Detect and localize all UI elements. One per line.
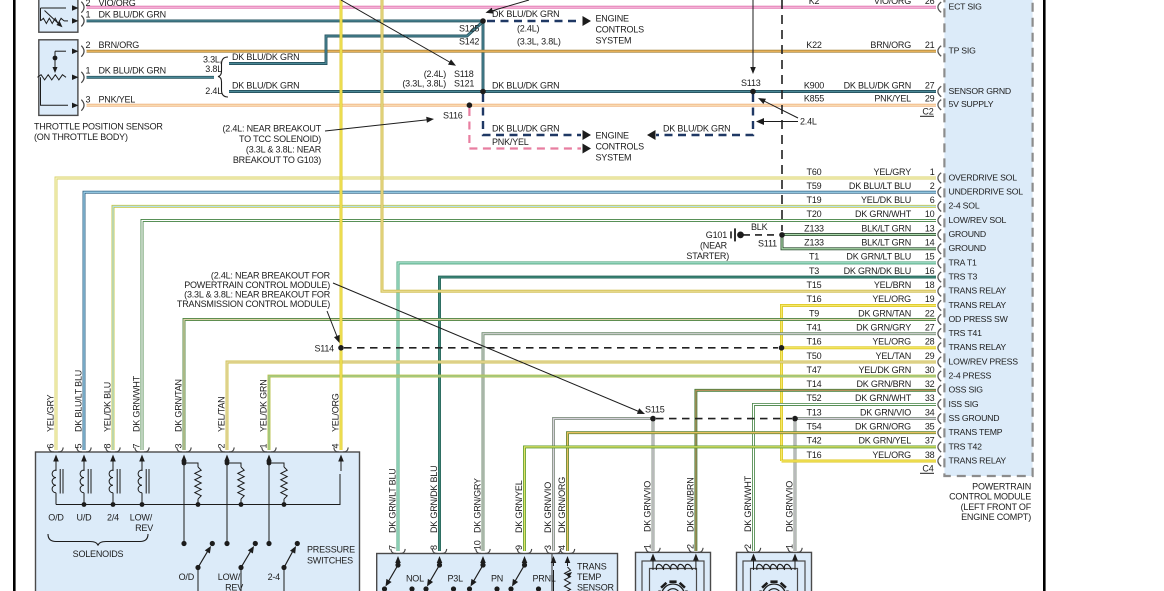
- pressure switch O/D resistor: [182, 461, 202, 505]
- svg-text:SENSOR: SENSOR: [577, 583, 615, 591]
- svg-text:K22: K22: [806, 40, 822, 50]
- svg-text:29: 29: [925, 94, 935, 104]
- svg-text:K855: K855: [804, 94, 824, 104]
- dashed BLK G101 to S111: [743, 234, 778, 236]
- svg-text:S111: S111: [758, 239, 777, 249]
- svg-text:7: 7: [132, 444, 142, 449]
- svg-text:OSS SIG: OSS SIG: [949, 385, 984, 395]
- svg-text:PNK/YEL: PNK/YEL: [874, 94, 911, 104]
- svg-text:BLK: BLK: [751, 222, 768, 232]
- svg-text:(LEFT FRONT OF: (LEFT FRONT OF: [961, 502, 1032, 512]
- splice S115: [650, 416, 656, 422]
- PCM C4 pin 13 GROUND labels: [804, 223, 986, 239]
- svg-text:YEL/DK BLU: YEL/DK BLU: [103, 382, 113, 432]
- svg-text:8: 8: [103, 444, 113, 449]
- svg-text:27: 27: [925, 322, 935, 332]
- range box pin 7 entry: [388, 468, 406, 566]
- svg-text:T52: T52: [807, 393, 822, 403]
- svg-text:S125: S125: [459, 24, 479, 34]
- svg-text:BLK/LT GRN: BLK/LT GRN: [861, 223, 911, 233]
- PCM location caption: [949, 482, 1032, 523]
- svg-text:3: 3: [86, 95, 91, 105]
- svg-text:BRN/ORG: BRN/ORG: [870, 40, 911, 50]
- svg-text:BRN/ORG: BRN/ORG: [99, 40, 140, 50]
- svg-text:BREAKOUT TO G103): BREAKOUT TO G103): [233, 155, 321, 165]
- svg-text:YEL/ORG: YEL/ORG: [331, 393, 341, 432]
- svg-text:T42: T42: [807, 436, 822, 446]
- svg-text:DK GRN/ORG: DK GRN/ORG: [557, 477, 567, 533]
- svg-text:Z133: Z133: [804, 238, 824, 248]
- svg-text:6: 6: [930, 195, 935, 205]
- PCM connector C2/C4 (powertrain control module): [944, 0, 1032, 476]
- svg-text:S113: S113: [741, 78, 761, 88]
- range switch NOL: [382, 562, 424, 591]
- solenoid box pin 4 entry: [331, 393, 349, 471]
- svg-text:(2.4L: NEAR BREAKOUT: (2.4L: NEAR BREAKOUT: [222, 123, 321, 133]
- svg-text:2: 2: [86, 40, 91, 50]
- wire T59 DK BLU/LT BLU pin 2: [84, 192, 936, 450]
- svg-text:LOW/: LOW/: [130, 513, 153, 523]
- wire T42 DK GRN/YEL pin 37: [525, 447, 937, 551]
- svg-text:ENGINE: ENGINE: [596, 14, 630, 24]
- svg-text:PRNL: PRNL: [533, 574, 556, 584]
- PCM C4 pin 2 UNDERDRIVE SOL labels: [807, 181, 1024, 197]
- splice S113: [750, 89, 756, 95]
- svg-text:DK GRN/LT BLU: DK GRN/LT BLU: [846, 252, 911, 262]
- svg-text:T3: T3: [809, 266, 819, 276]
- svg-text:T1: T1: [809, 252, 819, 262]
- svg-text:1: 1: [643, 544, 653, 549]
- PCM C4 pin 38 TRANS RELAY labels: [807, 450, 1007, 466]
- svg-text:DK BLU/DK GRN: DK BLU/DK GRN: [844, 80, 911, 90]
- svg-text:TRS T3: TRS T3: [949, 272, 978, 282]
- transmission range / pressure switch box: [377, 554, 618, 591]
- svg-text:SYSTEM: SYSTEM: [596, 36, 632, 46]
- svg-text:YEL/GRY: YEL/GRY: [874, 167, 912, 177]
- svg-text:SWITCHES: SWITCHES: [307, 556, 353, 566]
- wire T19 YEL/DK BLU pin 6: [113, 206, 936, 450]
- svg-text:VIO/ORG: VIO/ORG: [99, 0, 136, 8]
- note 2.4L near breakout for PCM / TCM: [177, 270, 331, 309]
- svg-text:34: 34: [925, 407, 935, 417]
- connector label C2: [920, 107, 934, 117]
- engine controls system (middle): [596, 131, 645, 163]
- svg-text:CONTROLS: CONTROLS: [596, 142, 645, 152]
- svg-text:T60: T60: [807, 167, 822, 177]
- svg-text:2-4: 2-4: [268, 572, 281, 582]
- svg-text:2.4L: 2.4L: [800, 117, 817, 127]
- solenoid coil LOW/REV: [138, 469, 149, 505]
- PCM C4 pin 16 TRS T3 labels: [809, 266, 977, 282]
- output speed sensor box: [636, 552, 711, 591]
- pressure switch 2-4 resistor: [267, 461, 288, 505]
- svg-text:T19: T19: [807, 195, 822, 205]
- svg-text:S114: S114: [314, 343, 334, 353]
- svg-text:PN: PN: [491, 574, 503, 584]
- svg-text:DK GRN/VIO: DK GRN/VIO: [860, 407, 911, 417]
- svg-text:DK GRN/LT BLU: DK GRN/LT BLU: [388, 468, 398, 533]
- PCM C4 pin 28 TRANS RELAY labels: [807, 337, 1007, 353]
- dashed DK BLU/DK GRN from S125 to engine controls: [487, 16, 591, 26]
- svg-text:22: 22: [925, 308, 935, 318]
- svg-text:1: 1: [86, 10, 91, 20]
- svg-text:TO TCC SOLENOID): TO TCC SOLENOID): [239, 134, 321, 144]
- svg-text:PNK/YEL: PNK/YEL: [492, 137, 529, 147]
- range box pin 8 entry: [429, 466, 447, 566]
- svg-text:T13: T13: [807, 407, 822, 417]
- svg-text:DK GRN/TAN: DK GRN/TAN: [174, 379, 184, 432]
- svg-text:TRS T41: TRS T41: [949, 328, 983, 338]
- svg-text:LOW/REV SOL: LOW/REV SOL: [949, 215, 1007, 225]
- splice S116: [467, 102, 473, 108]
- svg-text:5: 5: [74, 444, 84, 449]
- svg-text:T9: T9: [809, 308, 819, 318]
- svg-text:2: 2: [930, 181, 935, 191]
- svg-text:26: 26: [925, 0, 935, 6]
- svg-text:TRANS RELAY: TRANS RELAY: [949, 286, 1007, 296]
- pressure switch LOW/REV contacts: [224, 463, 258, 591]
- label S125 S142: [459, 24, 561, 47]
- svg-text:CONTROL MODULE: CONTROL MODULE: [949, 492, 1031, 502]
- svg-text:T41: T41: [807, 322, 822, 332]
- svg-text:DK BLU/LT BLU: DK BLU/LT BLU: [849, 181, 911, 191]
- wire ECT pin1 DK BLU/DK GRN: [87, 19, 483, 22]
- dashed DK BLU/DK GRN from S121 to engine controls: [483, 94, 591, 140]
- PCM C2 pin 27 SENSOR GRND labels: [804, 80, 1011, 96]
- range switch P3L: [423, 562, 463, 591]
- 2.4L label near S113 with arrows: [756, 98, 817, 127]
- splice S121/S118: [480, 89, 486, 95]
- wire 2.4L branch DK BLU/DK GRN to pin 27: [229, 90, 936, 93]
- svg-text:2: 2: [217, 444, 227, 449]
- svg-text:GROUND: GROUND: [949, 229, 986, 239]
- svg-text:DK GRN/GRY: DK GRN/GRY: [473, 478, 483, 533]
- svg-text:19: 19: [925, 294, 935, 304]
- pressure switch LOW/REV resistor: [225, 461, 245, 505]
- svg-text:CONTROLS: CONTROLS: [596, 25, 645, 35]
- PCM C2 pin 29 5V SUPPLY labels: [804, 94, 994, 110]
- svg-text:PNK/YEL: PNK/YEL: [99, 95, 136, 105]
- page right border: [1043, 0, 1046, 591]
- PCM C4 pin 18 TRANS RELAY labels: [807, 280, 1007, 296]
- TPS pin connectors: [81, 46, 84, 111]
- svg-text:3: 3: [174, 444, 184, 449]
- wire T9 DK GRN/TAN pin 22: [184, 320, 936, 451]
- svg-text:C4: C4: [922, 464, 933, 474]
- svg-text:S121: S121: [454, 79, 474, 89]
- svg-text:38: 38: [925, 450, 935, 460]
- leader arrow to S118: [341, 0, 456, 66]
- svg-text:GROUND: GROUND: [949, 243, 986, 253]
- wire 3.3L/3.8L branch DK BLU/DK GRN: [229, 23, 482, 64]
- svg-text:G101: G101: [706, 230, 727, 240]
- PCM C4 pin 37 TRS T42 labels: [807, 436, 983, 452]
- svg-text:P3L: P3L: [448, 574, 464, 584]
- label 3.3L 3.8L / 2.4L with brace: [203, 55, 228, 98]
- svg-text:YEL/DK GRN: YEL/DK GRN: [858, 365, 911, 375]
- leader arrow to S116: [325, 117, 434, 131]
- dashed S115 to junction: [656, 418, 792, 420]
- svg-text:YEL/ORG: YEL/ORG: [872, 337, 911, 347]
- dashed S114 to pin 28: [344, 347, 778, 349]
- connector label C4: [920, 464, 934, 474]
- svg-text:REV: REV: [135, 523, 153, 533]
- svg-text:4: 4: [331, 444, 341, 449]
- PCM C2 pin 21 TP SIG labels: [806, 40, 976, 56]
- svg-text:ENGINE: ENGINE: [596, 131, 630, 141]
- svg-text:10: 10: [473, 540, 483, 550]
- svg-text:TRANS RELAY: TRANS RELAY: [949, 342, 1007, 352]
- pressure switch O/D contacts: [181, 463, 215, 591]
- svg-text:S142: S142: [459, 37, 479, 47]
- svg-text:(3.3L & 3.8L: NEAR: (3.3L & 3.8L: NEAR: [246, 144, 322, 154]
- svg-text:13: 13: [925, 223, 935, 233]
- output speed sensor pin 1 entry: [643, 481, 661, 570]
- svg-text:DK GRN/WHT: DK GRN/WHT: [855, 393, 912, 403]
- range box pin 9 entry: [514, 480, 532, 566]
- svg-text:C2: C2: [922, 107, 933, 117]
- svg-text:2: 2: [86, 0, 91, 8]
- svg-text:9: 9: [514, 545, 524, 550]
- svg-text:DK GRN/GRY: DK GRN/GRY: [856, 322, 911, 332]
- svg-text:21: 21: [925, 40, 935, 50]
- svg-text:TRANS: TRANS: [577, 562, 607, 572]
- svg-text:YEL/TAN: YEL/TAN: [217, 397, 227, 432]
- svg-text:DK BLU/DK GRN: DK BLU/DK GRN: [99, 65, 166, 75]
- svg-text:LOW/REV PRESS: LOW/REV PRESS: [949, 356, 1019, 366]
- svg-text:STARTER): STARTER): [686, 251, 729, 261]
- svg-text:T54: T54: [807, 422, 822, 432]
- range switch PRNL: [508, 562, 556, 591]
- svg-text:DK GRN/DK BLU: DK GRN/DK BLU: [429, 466, 439, 533]
- range switch PN: [467, 562, 503, 591]
- wire T41 DK GRN/GRY pin 27: [483, 334, 936, 551]
- solenoid and pressure switch assembly box: [36, 452, 360, 591]
- wire TPS pin2 BRN/ORG to pin 21: [87, 50, 937, 53]
- svg-text:ENGINE COMPT): ENGINE COMPT): [961, 512, 1031, 522]
- PCM C4 pin 15 TRA T1 labels: [809, 252, 977, 268]
- splice S111: [779, 232, 785, 238]
- svg-text:DK GRN/VIO: DK GRN/VIO: [643, 481, 653, 532]
- svg-text:T16: T16: [807, 337, 822, 347]
- solenoid box pin 5 entry: [74, 370, 92, 471]
- PCM C4 pin 10 LOW/REV SOL labels: [807, 209, 1007, 225]
- leader arrow to S125: [486, 0, 530, 14]
- note 2.4L near breakout to TCC solenoid: [222, 123, 321, 165]
- svg-text:15: 15: [925, 252, 935, 262]
- wire T20 DK GRN/WHT pin 10: [142, 221, 936, 451]
- svg-text:T20: T20: [807, 209, 822, 219]
- svg-text:DK BLU/DK GRN: DK BLU/DK GRN: [492, 124, 559, 134]
- label S116: [443, 110, 463, 120]
- svg-text:O/D: O/D: [179, 572, 195, 582]
- svg-text:(3.3L, 3.8L): (3.3L, 3.8L): [517, 37, 561, 47]
- PCM C4 pin 19 TRANS RELAY labels: [807, 294, 1007, 310]
- label S114: [314, 343, 334, 353]
- ECT sensor box: [39, 0, 78, 32]
- svg-text:DK GRN/YEL: DK GRN/YEL: [858, 436, 911, 446]
- svg-text:BLK/LT GRN: BLK/LT GRN: [861, 238, 911, 248]
- svg-text:(NEAR: (NEAR: [700, 240, 728, 250]
- svg-text:TRA T1: TRA T1: [949, 257, 977, 267]
- output speed sensor pin 2 entry: [685, 477, 703, 570]
- svg-text:3.3L,: 3.3L,: [203, 55, 222, 65]
- PCM C4 pin 27 TRS T41 labels: [807, 322, 983, 338]
- svg-text:TRANSMISSION CONTROL MODULE): TRANSMISSION CONTROL MODULE): [177, 299, 330, 309]
- label S113: [741, 78, 761, 88]
- engine controls system (top): [596, 14, 645, 46]
- label DK BLU/DK GRN branch A: [229, 52, 300, 64]
- solenoid box pin 1 entry: [259, 379, 277, 471]
- svg-text:2-4 PRESS: 2-4 PRESS: [949, 371, 992, 381]
- TPS internal potentiometer: [38, 48, 79, 108]
- svg-text:5V SUPPLY: 5V SUPPLY: [949, 99, 994, 109]
- svg-text:T14: T14: [807, 379, 822, 389]
- svg-text:YEL/ORG: YEL/ORG: [872, 450, 911, 460]
- ground G101 (near starter): [686, 228, 743, 260]
- svg-text:S116: S116: [443, 110, 463, 120]
- svg-text:DK GRN/DK BLU: DK GRN/DK BLU: [844, 266, 911, 276]
- svg-text:1: 1: [259, 444, 269, 449]
- svg-text:DK GRN/WHT: DK GRN/WHT: [855, 209, 912, 219]
- splice S125/S142: [480, 18, 486, 24]
- page left border: [13, 0, 16, 591]
- svg-text:27: 27: [925, 80, 935, 90]
- svg-text:2: 2: [743, 544, 753, 549]
- svg-text:8: 8: [429, 545, 439, 550]
- svg-text:1: 1: [86, 65, 91, 75]
- range box pin 3 entry: [543, 482, 561, 566]
- svg-text:SENSOR GRND: SENSOR GRND: [949, 86, 1011, 96]
- input speed sensor pin 1 entry: [785, 481, 803, 570]
- label S118 S121: [402, 69, 474, 89]
- ECT sensor internal thermistor: [41, 5, 79, 27]
- svg-text:REV: REV: [225, 583, 243, 591]
- svg-text:1: 1: [930, 167, 935, 177]
- solenoids brace: [48, 534, 148, 559]
- svg-text:33: 33: [925, 393, 935, 403]
- svg-text:TRANS RELAY: TRANS RELAY: [949, 455, 1007, 465]
- leader arrow to S115: [333, 283, 645, 414]
- wire T15 YEL/BRN pin 18: [382, 0, 936, 291]
- svg-text:DK BLU/DK GRN: DK BLU/DK GRN: [492, 9, 559, 19]
- svg-text:YEL/DK BLU: YEL/DK BLU: [861, 195, 911, 205]
- solenoid labels: [48, 513, 153, 534]
- PCM C4 pin 1 OVERDRIVE SOL labels: [807, 167, 1018, 183]
- solenoid box pin 7 entry: [132, 375, 150, 471]
- svg-text:30: 30: [925, 365, 935, 375]
- svg-text:2/4: 2/4: [107, 513, 119, 523]
- svg-text:4: 4: [557, 545, 567, 550]
- dashed DK BLU/DK GRN from S113 to engine controls: [647, 94, 753, 140]
- svg-text:(2.4L): (2.4L): [517, 24, 540, 34]
- splice S114: [338, 345, 344, 351]
- wire T50 YEL/TAN pin 29: [227, 362, 936, 450]
- svg-text:18: 18: [925, 280, 935, 290]
- wire T1 DK GRN/LT BLU pin 15: [398, 263, 936, 551]
- svg-text:OVERDRIVE SOL: OVERDRIVE SOL: [949, 172, 1018, 182]
- input speed sensor box: [737, 552, 812, 591]
- wire T13 DK GRN/VIO S115 drop: [652, 419, 655, 551]
- label BLK / S111: [751, 222, 777, 248]
- PCM C4 pin 14 GROUND labels: [804, 238, 986, 254]
- splice junction pin28 yellow: [779, 345, 785, 351]
- svg-text:35: 35: [925, 422, 935, 432]
- svg-text:POWERTRAIN: POWERTRAIN: [972, 482, 1031, 492]
- trans temp sensor: [554, 562, 615, 591]
- label DK BLU/DK GRN above S125 dashes: [492, 9, 559, 19]
- wire T14 DK GRN/BRN pin 32: [696, 390, 936, 551]
- label S115: [645, 405, 665, 415]
- label DK BLU/DK GRN above pin27 wire: [492, 80, 559, 90]
- svg-text:Z133: Z133: [804, 223, 824, 233]
- PCM C4 pin 35 TRANS TEMP labels: [807, 422, 1003, 438]
- svg-text:ISS SIG: ISS SIG: [949, 399, 979, 409]
- svg-text:YEL/TAN: YEL/TAN: [876, 351, 911, 361]
- PCM C4 pin 6 2-4 SOL labels: [807, 195, 980, 211]
- svg-text:2: 2: [685, 544, 695, 549]
- wire T16 YEL/ORG pin 28: [782, 346, 937, 349]
- svg-text:SYSTEM: SYSTEM: [596, 153, 632, 163]
- TPS pin labels: [86, 40, 166, 105]
- svg-text:DK GRN/BRN: DK GRN/BRN: [856, 379, 911, 389]
- svg-text:DK BLU/DK GRN: DK BLU/DK GRN: [99, 10, 166, 20]
- solenoid coil U/D: [80, 469, 91, 505]
- leader arrow to S114: [327, 311, 340, 343]
- PCM C4 pin 30 2-4 PRESS labels: [807, 365, 992, 381]
- svg-text:TRS T42: TRS T42: [949, 441, 983, 451]
- svg-text:K900: K900: [804, 80, 824, 90]
- svg-text:SS GROUND: SS GROUND: [949, 413, 1000, 423]
- svg-text:VIO/ORG: VIO/ORG: [874, 0, 911, 6]
- solenoid coil O/D: [52, 469, 63, 505]
- wire DK BLU/DK GRN vertical S125 to S121: [482, 21, 485, 92]
- svg-text:14: 14: [925, 238, 935, 248]
- pressure switch labels: [179, 545, 356, 591]
- svg-text:T16: T16: [807, 450, 822, 460]
- svg-text:6: 6: [46, 444, 56, 449]
- svg-text:(2.4L: NEAR BREAKOUT FOR: (2.4L: NEAR BREAKOUT FOR: [211, 270, 331, 280]
- wire T13 DK GRN/VIO S115 branch: [554, 419, 654, 551]
- svg-text:DK BLU/LT BLU: DK BLU/LT BLU: [74, 370, 84, 432]
- svg-text:TEMP: TEMP: [577, 572, 601, 582]
- svg-text:YEL/GRY: YEL/GRY: [46, 394, 56, 432]
- PCM C4 pin 33 ISS SIG labels: [807, 393, 979, 409]
- svg-text:DK GRN/WHT: DK GRN/WHT: [743, 475, 753, 532]
- svg-text:(3.3L, 3.8L): (3.3L, 3.8L): [402, 79, 446, 89]
- wire T3 DK GRN/DK BLU pin 16: [440, 277, 937, 551]
- svg-text:37: 37: [925, 436, 935, 446]
- solenoid bottom bus to pin 4: [56, 474, 340, 507]
- svg-text:TRANS RELAY: TRANS RELAY: [949, 300, 1007, 310]
- wire T13 DK GRN/VIO pin 34: [795, 419, 936, 551]
- svg-text:28: 28: [925, 337, 935, 347]
- svg-text:U/D: U/D: [77, 513, 93, 523]
- PCM C4 pin 34 SS GROUND labels: [807, 407, 1000, 423]
- svg-text:DK GRN/TAN: DK GRN/TAN: [858, 308, 911, 318]
- svg-text:PRESSURE: PRESSURE: [307, 545, 355, 555]
- svg-text:T50: T50: [807, 351, 822, 361]
- svg-text:POWERTRAIN CONTROL MODULE): POWERTRAIN CONTROL MODULE): [184, 280, 330, 290]
- svg-text:YEL/DK GRN: YEL/DK GRN: [259, 379, 269, 432]
- svg-text:T59: T59: [807, 181, 822, 191]
- svg-text:DK GRN/WHT: DK GRN/WHT: [132, 375, 142, 432]
- range box pin 10 entry: [473, 478, 491, 566]
- svg-text:SOLENOIDS: SOLENOIDS: [73, 549, 124, 559]
- svg-text:10: 10: [925, 209, 935, 219]
- svg-text:3: 3: [543, 545, 553, 550]
- svg-text:DK GRN/VIO: DK GRN/VIO: [543, 482, 553, 533]
